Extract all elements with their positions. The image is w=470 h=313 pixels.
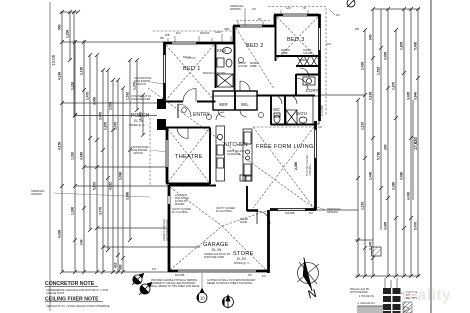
- svg-text:D.P.: D.P.: [152, 268, 157, 271]
- svg-text:SPHED @ -¾: SPHED @ -¾: [129, 123, 146, 127]
- svg-text:1,210: 1,210: [71, 82, 75, 90]
- door store: [257, 211, 270, 224]
- leader contrasting top: [151, 82, 163, 84]
- svg-text:4,190: 4,190: [58, 72, 62, 80]
- right dimension numbers: [361, 34, 419, 250]
- svg-text:FREE FORM LIVING: FREE FORM LIVING: [256, 144, 314, 150]
- svg-text:4,010: 4,010: [109, 182, 113, 190]
- door ldry: [296, 78, 308, 90]
- door arcs: [177, 68, 309, 224]
- detail bubbles bottom-left pair: [132, 274, 152, 296]
- small circles markers: [182, 57, 264, 119]
- svg-text:W/B: W/B: [165, 34, 170, 37]
- svg-text:5,870: 5,870: [93, 182, 97, 190]
- svg-text:WC: WC: [273, 107, 280, 112]
- dim line L1: [61, 12, 63, 272]
- door wc: [273, 95, 282, 104]
- svg-text:D.P.: D.P.: [309, 212, 314, 215]
- ens fixtures: [213, 48, 319, 182]
- svg-text:SPHED @ -¾: SPHED @ -¾: [234, 262, 250, 265]
- door entry/porch: [177, 104, 179, 118]
- door wir: [218, 110, 225, 117]
- compass: [297, 258, 319, 302]
- outer wall: bed2 top: [233, 25, 276, 28]
- diag living: [253, 127, 314, 208]
- svg-text:CEILINGS AT 31c + PLATE UNLESS: CEILINGS AT 31c + PLATE UNLESS NOTED OTH…: [46, 305, 110, 308]
- annotation texts around plan: [31, 5, 359, 278]
- kitchen bench right: [243, 129, 252, 181]
- wall ldry top: [296, 74, 320, 76]
- svg-text:G'GUND: G'GUND: [238, 65, 248, 68]
- svg-text:BED 2: BED 2: [246, 43, 264, 49]
- top wall tick annotations: [168, 8, 335, 58]
- door bed2: [240, 81, 250, 91]
- svg-text:5,790: 5,790: [377, 152, 381, 160]
- bottom-center notes: [151, 279, 256, 288]
- svg-text:3,185: 3,185: [369, 92, 373, 100]
- kitchen bench left: [216, 126, 225, 181]
- outer wall: right upper: [318, 14, 321, 121]
- outer wall: right living: [314, 121, 317, 210]
- door bed3: [300, 68, 309, 77]
- outer wall: theatre left: [166, 127, 169, 183]
- svg-text:410: 410: [114, 262, 118, 268]
- svg-text:3,465: 3,465: [384, 52, 388, 60]
- svg-text:EL 2N: EL 2N: [134, 119, 144, 123]
- svg-text:G/DOOR: G/DOOR: [136, 83, 146, 86]
- diag bed1: [166, 45, 214, 100]
- left tick marks: [60, 10, 145, 274]
- svg-text:4,430: 4,430: [407, 192, 411, 200]
- wall wir/wil box: [213, 91, 257, 110]
- svg-text:4PAKRD: 4PAKRD: [175, 203, 185, 206]
- svg-text:▼ GARAGE FFL: ▼ GARAGE FFL: [357, 302, 376, 305]
- ldry trough: [303, 77, 315, 85]
- bath fixtures: [313, 96, 319, 124]
- svg-text:A/13: A/13: [326, 43, 332, 46]
- brick column 2: [393, 288, 401, 294]
- wall bed2/bed3: [275, 15, 277, 61]
- svg-text:BED 3: BED 3: [287, 37, 305, 43]
- wall bed1 bottom / entry: [164, 101, 183, 103]
- svg-text:REFER TO DETAILS SHEET FOR DET: REFER TO DETAILS SHEET FOR DETAIL.: [207, 282, 254, 285]
- dim line L9: [112, 80, 114, 272]
- left page border line: [49, 2, 51, 311]
- svg-text:1,310: 1,310: [71, 152, 75, 160]
- LEFT DIMENSION BAND: [60, 12, 200, 272]
- svg-text:KL10.05B: KL10.05B: [321, 105, 324, 116]
- right tick marks: [356, 7, 420, 278]
- top connector: [60, 11, 78, 13]
- svg-text:200: 200: [384, 144, 388, 150]
- internal walls: [164, 15, 320, 211]
- outer wall: bed3 top: [274, 14, 319, 17]
- svg-text:W-B'KONE OVER: W-B'KONE OVER: [131, 98, 151, 101]
- wall store/garage: [246, 186, 248, 211]
- svg-text:A/13: A/13: [286, 7, 292, 10]
- dim line L7: [102, 70, 104, 272]
- svg-text:SP: SP: [258, 18, 262, 21]
- outer wall: store right: [267, 210, 270, 273]
- svg-text:6/13: 6/13: [176, 32, 181, 35]
- wall ens/bed2: [234, 43, 236, 91]
- porch pier top: [157, 99, 166, 109]
- dim line L12: [129, 60, 131, 240]
- top connector: [373, 8, 420, 10]
- svg-text:140: 140: [80, 239, 84, 245]
- svg-text:W- FLUSHING: W- FLUSHING: [216, 210, 232, 213]
- outer wall: jog bed2: [233, 26, 236, 43]
- svg-text:3,405: 3,405: [384, 222, 388, 230]
- wall garage top: [169, 185, 216, 187]
- wall bed1/ens: [215, 43, 217, 88]
- diag bed3: [277, 17, 318, 59]
- mid connectors: [62, 102, 164, 104]
- dim line L5: [89, 55, 91, 230]
- svg-text:5,470: 5,470: [414, 222, 418, 230]
- svg-text:PAR-WS: PAR-WS: [200, 32, 210, 35]
- svg-text:ROBE: ROBE: [299, 59, 306, 62]
- dim line L8: [107, 70, 109, 250]
- door bed1: [183, 89, 196, 102]
- svg-text:3,470: 3,470: [99, 112, 103, 120]
- svg-text:S.P.: S.P.: [318, 126, 323, 129]
- dim line R10 (total): [412, 100, 414, 200]
- garage roof ridges: [170, 187, 222, 226]
- svg-text:PAR-WS-GLZN OBS: PAR-WS-GLZN OBS: [203, 72, 226, 75]
- svg-text:4,430: 4,430: [58, 230, 62, 238]
- dim line R8: [410, 9, 412, 276]
- bottom-right wall section detail: [350, 278, 418, 313]
- svg-text:1,870: 1,870: [104, 122, 108, 130]
- porch pier bottom: [157, 119, 166, 130]
- brick pier symbol: [372, 247, 382, 256]
- svg-text:DL6.05B: DL6.05B: [175, 274, 185, 277]
- dim line R9: [417, 9, 419, 276]
- svg-text:10: 10: [200, 296, 205, 301]
- robes bed3 row slashes: [297, 56, 317, 66]
- svg-text:OBS: OBS: [224, 28, 229, 31]
- svg-text:LOW WALL: LOW WALL: [309, 163, 312, 176]
- windows (double thin lines on outer walls): [165, 15, 320, 271]
- svg-text:1,200: 1,200: [66, 30, 70, 38]
- dim line R7: [403, 9, 405, 276]
- leader contrasting mid: [151, 150, 166, 152]
- svg-text:BED 1: BED 1: [183, 66, 201, 72]
- outer wall: store top opening jamb: [247, 209, 258, 212]
- outer wall: living bottom: [270, 208, 316, 211]
- wall wir/wil divider: [234, 91, 236, 110]
- door kitchen hall: [216, 112, 224, 120]
- svg-text:2,245: 2,245: [369, 242, 373, 250]
- svg-text:SECTIONAL DOOR: SECTIONAL DOOR: [166, 219, 169, 241]
- svg-text:ILLRNGGE: ILLRNGGE: [227, 152, 240, 156]
- outer wall: garage bottom: [169, 270, 270, 273]
- svg-text:SPRIONS: SPRIONS: [230, 8, 241, 11]
- outer wall: bed1 left: [157, 14, 320, 273]
- brick column 1: [383, 288, 391, 294]
- diag theatre: [168, 129, 209, 182]
- svg-text:1,805: 1,805: [400, 42, 404, 50]
- dim line L14: [142, 95, 144, 135]
- svg-text:1,515: 1,515: [377, 67, 381, 75]
- svg-text:GARAGE DOOR.: GARAGE DOOR.: [46, 292, 65, 295]
- svg-text:3,480: 3,480: [400, 172, 404, 180]
- svg-text:W-B'KONE OVER: W-B'KONE OVER: [204, 256, 224, 259]
- top-right detail bubble: [347, 0, 356, 7]
- svg-text:17,620: 17,620: [413, 137, 418, 150]
- svg-text:3,390: 3,390: [392, 182, 396, 190]
- svg-text:500 dia: 500 dia: [183, 56, 192, 59]
- svg-text:3,465: 3,465: [407, 92, 411, 100]
- dim line L2: [69, 12, 71, 60]
- svg-text:ROBE: ROBE: [281, 52, 288, 55]
- svg-text:5,400: 5,400: [414, 42, 418, 50]
- svg-text:4,150: 4,150: [58, 142, 62, 150]
- dim line L4: [83, 40, 85, 272]
- dim line R6: [395, 30, 397, 276]
- hatched ground: [403, 302, 412, 313]
- svg-text:WB: WB: [160, 37, 164, 40]
- svg-text:D.P.: D.P.: [262, 275, 267, 278]
- svg-text:2,390: 2,390: [294, 162, 298, 170]
- svg-text:EL 2N: EL 2N: [237, 257, 246, 261]
- detail bubble 10: [197, 273, 207, 303]
- lines above bricks: [384, 278, 386, 288]
- outer wall: jog bed3: [274, 15, 277, 26]
- svg-text:1,440: 1,440: [369, 172, 373, 180]
- svg-text:13.05: 13.05: [51, 54, 56, 66]
- svg-text:3,090: 3,090: [119, 172, 123, 180]
- dim line R3: [372, 9, 374, 276]
- svg-text:ROBE: ROBE: [250, 65, 257, 68]
- svg-text:KITCHEN: KITCHEN: [224, 142, 248, 148]
- gray strip: [357, 306, 383, 313]
- svg-text:3,660: 3,660: [80, 152, 84, 160]
- outer wall: bed1+ens top: [164, 42, 236, 45]
- wc toilet: [274, 115, 280, 123]
- bottom-left notes: [45, 281, 110, 308]
- svg-text:960: 960: [58, 24, 62, 30]
- bottom connector: [355, 275, 420, 277]
- wall hall/wc/bath top: [257, 95, 315, 97]
- dim line L6: [96, 55, 98, 272]
- right page border line: [430, 0, 432, 313]
- dim line L11: [122, 88, 124, 272]
- svg-text:SPRIONG: SPRIONG: [327, 211, 338, 214]
- dim line L13: [136, 60, 138, 110]
- wall wc left: [270, 95, 272, 125]
- svg-text:1,510: 1,510: [126, 92, 130, 100]
- svg-text:THEATRE: THEATRE: [175, 154, 203, 160]
- svg-text:1,210: 1,210: [361, 202, 365, 210]
- svg-text:EL 2N: EL 2N: [212, 248, 222, 252]
- diag bed2: [236, 28, 274, 89]
- RIGHT DIMENSION BAND: [316, 9, 420, 276]
- svg-text:940: 940: [369, 34, 373, 40]
- svg-text:GLZN: GLZN: [215, 31, 222, 34]
- mid connector stubs: [320, 94, 365, 96]
- long diag across plan: [148, 88, 314, 208]
- svg-text:3,690: 3,690: [126, 192, 130, 200]
- leader hardiflex left: [54, 193, 150, 197]
- wall theatre bottom: [166, 183, 210, 185]
- dim line R1: [357, 100, 359, 276]
- wall entry/theatre: [166, 127, 210, 129]
- svg-text:▼ HOUSE FFL: ▼ HOUSE FFL: [358, 295, 375, 298]
- svg-text:900: 900: [119, 264, 123, 270]
- svg-text:reality: reality: [402, 287, 451, 304]
- svg-text:ENS: ENS: [217, 48, 226, 53]
- svg-text:SP: SP: [303, 7, 307, 10]
- svg-text:WITHONE/PIER: WITHONE/PIER: [350, 291, 368, 294]
- bottom connector: [62, 271, 169, 273]
- svg-text:3,060: 3,060: [93, 97, 97, 105]
- svg-text:ENTRY: ENTRY: [193, 112, 211, 118]
- door wil: [240, 110, 247, 117]
- svg-text:WB: WB: [355, 28, 359, 31]
- dim line L3: [74, 40, 76, 272]
- left dimension numbers (rotated): [58, 24, 143, 270]
- leader hardiflex right: [317, 207, 326, 210]
- svg-text:BATH: BATH: [296, 111, 307, 116]
- svg-text:D.P.: D.P.: [252, 8, 257, 11]
- svg-text:D.P.: D.P.: [248, 274, 253, 277]
- wall wc/bath divider: [284, 95, 286, 125]
- dim line R4: [380, 9, 382, 230]
- dim line L10: [117, 80, 119, 272]
- svg-text:1,470: 1,470: [86, 92, 90, 100]
- dashed ceiling/roof diagonals: [148, 7, 326, 271]
- detail bubble arrow: [223, 295, 234, 309]
- svg-text:1,405: 1,405: [361, 62, 365, 70]
- wall bed3 bottom (robe row): [275, 55, 319, 57]
- svg-text:1,300: 1,300: [71, 207, 75, 215]
- svg-text:DL6.05B: DL6.05B: [285, 212, 295, 215]
- svg-text:1,470: 1,470: [114, 122, 118, 130]
- svg-text:APRIONS: APRIONS: [31, 193, 42, 196]
- svg-text:L'DRY: L'DRY: [306, 88, 319, 93]
- dim line R5: [387, 9, 389, 276]
- hot water unit: [240, 175, 245, 181]
- svg-text:G/DOOR: G/DOOR: [133, 152, 143, 155]
- svg-text:G'GUND: G'GUND: [303, 52, 313, 55]
- svg-text:3,500: 3,500: [109, 102, 113, 110]
- wall theatre right: [209, 128, 211, 185]
- svg-text:WIL: WIL: [241, 102, 249, 107]
- svg-text:3,840: 3,840: [414, 92, 418, 100]
- wall wc/bath bottom: [271, 124, 315, 126]
- svg-text:3,770: 3,770: [99, 207, 103, 215]
- svg-text:2,190: 2,190: [80, 67, 84, 75]
- room labels: [129, 37, 319, 265]
- svg-text:DOOR: DOOR: [240, 221, 247, 224]
- wir/wil internals: [213, 95, 257, 97]
- outer wall: garage left: [168, 185, 171, 272]
- svg-text:W- FLUSHING: W- FLUSHING: [172, 211, 188, 214]
- wall bath/ldry: [295, 74, 297, 95]
- svg-text:D.P.: D.P.: [336, 14, 341, 17]
- svg-text:WALL. REFER TO THIS SHEET FOR: WALL. REFER TO THIS SHEET FOR DETAIL: [151, 285, 201, 288]
- svg-text:1,870: 1,870: [392, 82, 396, 90]
- termite arrow: [404, 306, 410, 312]
- dim line R2: [364, 30, 366, 276]
- svg-text:1,110: 1,110: [361, 122, 365, 130]
- svg-text:WIR: WIR: [219, 102, 228, 107]
- door bath: [288, 95, 297, 104]
